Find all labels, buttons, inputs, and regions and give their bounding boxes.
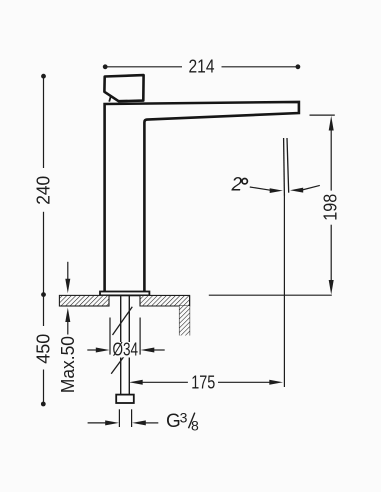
thread break diagonal lower <box>111 348 130 373</box>
dimension 214 end dots <box>103 64 108 69</box>
countertop hatched top band left of hole <box>59 295 109 306</box>
svg-text:198: 198 <box>320 194 340 221</box>
svg-text:8: 8 <box>191 417 199 433</box>
svg-text:Max.50: Max.50 <box>58 336 78 393</box>
base plate <box>100 292 149 296</box>
stream centerline <box>283 196 285 387</box>
handle <box>104 75 143 101</box>
countertop surface line extension right <box>209 294 332 296</box>
faucet body and spout outline <box>105 102 299 292</box>
dimension 175 arrow left <box>129 380 143 385</box>
svg-text:Ø34: Ø34 <box>113 340 139 360</box>
dimension 240 line <box>43 76 45 294</box>
dimension 214 line <box>106 66 297 68</box>
dimension 198 line <box>330 128 332 283</box>
dimension 450 line <box>43 295 45 404</box>
countertop hatched top band right of hole <box>140 295 190 306</box>
dimension 198 arrow down <box>329 280 334 295</box>
countertop right leg (cross-section) <box>180 295 190 335</box>
svg-text:G: G <box>166 411 181 432</box>
Max.50 arrow up <box>67 321 69 335</box>
dimension 450 end dot <box>41 402 46 407</box>
Max.50 arrow down <box>67 262 69 281</box>
dimension 198 top tick <box>310 114 335 116</box>
G3/8 arrow right <box>145 422 159 424</box>
G3/8 arrow left <box>88 422 107 424</box>
handle lever inner line <box>109 97 111 102</box>
svg-text:450: 450 <box>33 334 53 364</box>
dimension 240 end dots <box>41 74 46 79</box>
thread break diagonal upper <box>113 307 133 335</box>
threaded shank <box>121 295 130 394</box>
svg-text:175: 175 <box>191 373 215 393</box>
svg-text:240: 240 <box>33 176 53 205</box>
dimension D34 extension lines <box>110 318 140 355</box>
G3/8 extension lines <box>119 409 131 427</box>
dimension 175 arrow right <box>269 380 283 385</box>
dimension D34 arrows <box>87 349 98 351</box>
dimension D34 text halo <box>111 343 140 358</box>
2 deg leader left <box>250 187 271 190</box>
dimension 175 line <box>141 381 272 383</box>
water stream (2 deg taper) <box>283 138 286 196</box>
2 deg leader right <box>302 185 320 190</box>
svg-text:3: 3 <box>180 409 188 425</box>
svg-text:2: 2 <box>231 174 243 195</box>
dimension 198 arrow up <box>329 116 334 131</box>
supply nut <box>116 395 134 403</box>
svg-text:214: 214 <box>189 57 215 77</box>
